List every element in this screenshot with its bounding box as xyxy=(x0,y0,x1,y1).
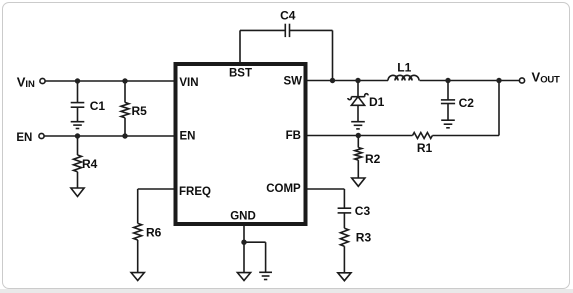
svg-text:R5: R5 xyxy=(132,104,148,118)
svg-text:OUT: OUT xyxy=(540,75,560,86)
svg-text:FB: FB xyxy=(286,130,301,142)
svg-text:SW: SW xyxy=(283,76,302,88)
svg-text:GND: GND xyxy=(230,211,256,223)
svg-text:C3: C3 xyxy=(355,204,371,218)
svg-text:IN: IN xyxy=(25,79,35,90)
svg-text:R1: R1 xyxy=(417,141,433,155)
svg-text:EN: EN xyxy=(180,131,196,143)
svg-text:FREQ: FREQ xyxy=(179,186,211,198)
svg-text:R3: R3 xyxy=(356,230,372,244)
svg-text:L1: L1 xyxy=(397,61,411,75)
svg-text:R4: R4 xyxy=(82,157,98,171)
svg-text:V: V xyxy=(532,70,541,85)
svg-text:D1: D1 xyxy=(369,95,385,109)
svg-text:BST: BST xyxy=(229,68,252,80)
svg-text:COMP: COMP xyxy=(266,183,301,195)
svg-text:C2: C2 xyxy=(459,96,475,110)
svg-text:EN: EN xyxy=(16,132,32,144)
svg-text:C4: C4 xyxy=(280,8,296,22)
svg-text:R2: R2 xyxy=(365,152,381,166)
svg-text:R6: R6 xyxy=(146,225,162,239)
svg-text:C1: C1 xyxy=(90,99,106,113)
svg-text:VIN: VIN xyxy=(179,77,198,89)
